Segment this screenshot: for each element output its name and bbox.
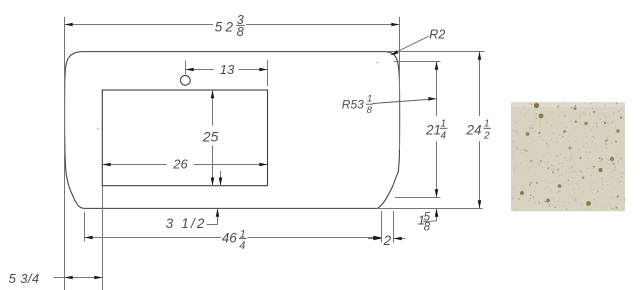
svg-text:13: 13	[220, 62, 235, 77]
extension line for 13 at x=267.5	[267, 60, 269, 86]
leader R2	[392, 36, 430, 55]
extension lines for 2	[381, 211, 383, 243]
extension line x=101.7 below cutout	[102, 186, 104, 290]
extension line right x=399	[399, 17, 401, 150]
svg-text:21: 21	[425, 123, 441, 138]
extension line for 13 at x=185.3	[185, 61, 187, 75]
dimension 21 1/4 text	[425, 119, 448, 142]
svg-text:25: 25	[202, 129, 219, 145]
sink cutout rectangle	[102, 90, 267, 186]
dimension 25 line	[212, 90, 214, 126]
dimension 5 3/4 line	[54, 277, 103, 279]
dimension 24 1/2 text	[466, 119, 492, 142]
dimension 21 1/4 line	[436, 62, 438, 117]
extension line y=197.5 right	[395, 197, 441, 199]
dimension 13 line	[186, 69, 215, 71]
svg-text:1: 1	[484, 119, 490, 130]
svg-text:8: 8	[424, 221, 431, 233]
svg-text:5 3/4: 5 3/4	[9, 271, 40, 286]
svg-text:46: 46	[222, 230, 238, 245]
extension line left x=65	[64, 17, 66, 290]
dimension 2 arrows (outside)	[368, 238, 382, 240]
svg-text:2: 2	[383, 233, 392, 248]
svg-text:4: 4	[239, 240, 245, 252]
leader R53 1/8	[373, 99, 437, 104]
svg-text:26: 26	[172, 156, 188, 171]
dimension 52 3/8 text	[215, 13, 245, 39]
dimension 24 1/2 line	[479, 52, 481, 116]
faucet hole circle	[180, 75, 190, 85]
svg-text:1: 1	[367, 93, 372, 104]
svg-text:2: 2	[483, 131, 490, 142]
svg-text:R53: R53	[342, 97, 364, 111]
dimension 52 3/8 line	[65, 24, 214, 26]
svg-text:8: 8	[367, 105, 373, 116]
svg-text:1: 1	[441, 119, 447, 130]
countertop outline	[65, 52, 400, 209]
extension line top edge right y=51.5	[385, 51, 485, 53]
dimension 46 1/4 line	[85, 237, 222, 239]
extension line bottom edge right y=208.5	[377, 208, 483, 210]
R53 1/8 text	[342, 93, 373, 116]
dimension 1 5/8 lower arrow and leader	[436, 209, 438, 222]
dimension 1 5/8 text	[418, 212, 431, 234]
dimension 46 1/4 text	[222, 228, 247, 251]
extension line x=84 for 46 1/4	[84, 212, 86, 242]
svg-text:3 1/2: 3 1/2	[166, 216, 207, 231]
dimension 3 1/2 upper arrow	[220, 171, 222, 186]
svg-text:R2: R2	[429, 27, 445, 41]
dimension 3 1/2 lower arrow and leader	[217, 209, 219, 225]
dimension 26 line	[103, 164, 167, 166]
svg-text:52: 52	[215, 20, 236, 35]
svg-text:8: 8	[237, 25, 244, 39]
svg-text:24: 24	[466, 123, 482, 138]
material swatch	[511, 102, 625, 211]
stray speck dots	[97, 128, 99, 130]
svg-text:4: 4	[441, 131, 447, 142]
extension line y=61.4 right for 21 1/4	[394, 61, 441, 63]
